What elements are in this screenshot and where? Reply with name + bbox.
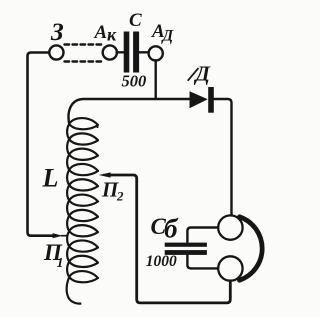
svg-text:1: 1 xyxy=(57,256,64,271)
svg-text:L: L xyxy=(42,164,59,193)
svg-text:А: А xyxy=(94,22,108,43)
svg-text:500: 500 xyxy=(122,72,147,91)
svg-text:б: б xyxy=(164,214,179,244)
svg-text:С: С xyxy=(129,10,142,31)
svg-text:З: З xyxy=(50,19,64,46)
svg-text:2: 2 xyxy=(116,189,124,204)
svg-text:к: к xyxy=(107,24,117,44)
svg-text:Д: Д xyxy=(161,28,175,45)
svg-text:1000: 1000 xyxy=(146,253,177,270)
svg-text:Д: Д xyxy=(194,62,211,86)
